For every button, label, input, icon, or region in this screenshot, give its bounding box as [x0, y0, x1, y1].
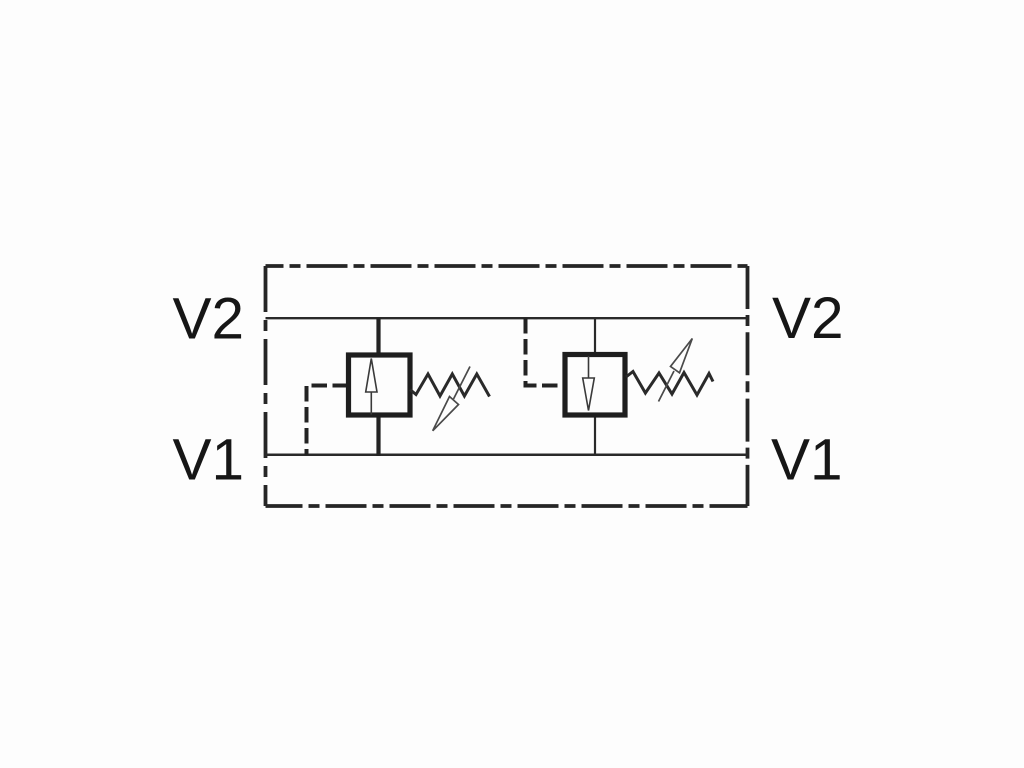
- relief valve RV2 adjust arrow (up-right): [659, 339, 693, 402]
- relief valve RV2 flow arrow (down): [583, 356, 595, 411]
- relief valve RV1 pilot line (dashed): [307, 386, 349, 456]
- wire valve2 bottom connector: [594, 414, 596, 456]
- svg-text:V2: V2: [173, 286, 245, 351]
- node V2 line: [266, 317, 748, 319]
- node V1 line: [266, 454, 748, 457]
- wire valve2 top connector: [594, 318, 596, 356]
- relief valve RV1 adjust arrow (down-left): [433, 367, 470, 431]
- relief valve RV2 spring: [626, 372, 713, 396]
- wire valve1 bottom connector: [376, 414, 380, 456]
- relief valve RV1 spring: [410, 374, 490, 397]
- relief valve RV2 pilot line (dashed): [526, 318, 566, 386]
- relief valve RV2 body: [565, 355, 625, 416]
- relief valve RV1 flow arrow (up): [366, 359, 377, 415]
- wire valve1 top connector: [376, 318, 380, 356]
- relief valve RV1 body: [349, 355, 411, 415]
- svg-text:V2: V2: [772, 286, 844, 351]
- svg-text:V1: V1: [771, 427, 843, 492]
- svg-text:V1: V1: [173, 427, 245, 492]
- valve body enclosure (dash-dot border): [266, 266, 748, 506]
